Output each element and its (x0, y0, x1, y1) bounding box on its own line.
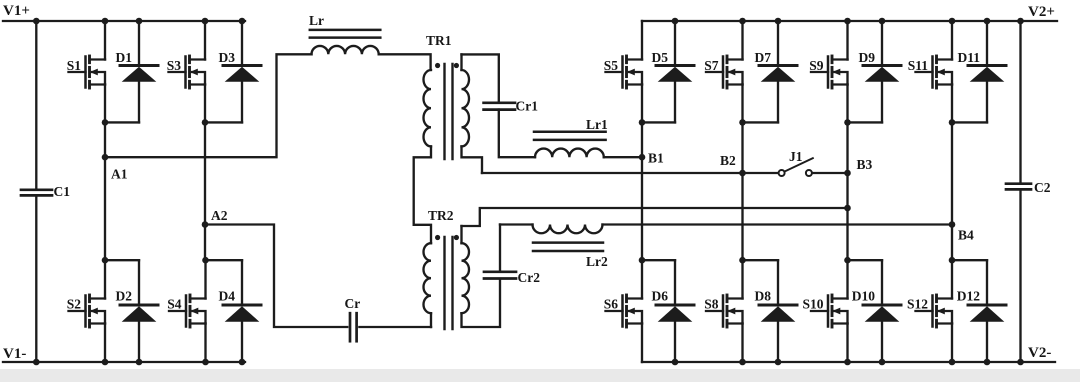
svg-text:B4: B4 (958, 228, 974, 243)
svg-text:B2: B2 (720, 153, 736, 168)
svg-text:S6: S6 (604, 297, 619, 312)
svg-text:V2-: V2- (1028, 345, 1051, 361)
svg-text:S1: S1 (67, 58, 82, 73)
svg-text:S10: S10 (802, 297, 823, 312)
svg-text:Cr1: Cr1 (516, 99, 539, 114)
svg-text:C1: C1 (54, 184, 71, 199)
svg-text:A2: A2 (211, 208, 228, 223)
svg-text:B3: B3 (857, 157, 873, 172)
svg-text:D5: D5 (652, 50, 669, 65)
svg-text:C2: C2 (1034, 180, 1051, 195)
svg-text:B1: B1 (648, 151, 664, 166)
svg-text:S4: S4 (167, 297, 182, 312)
svg-text:V1-: V1- (3, 346, 26, 362)
svg-text:Cr2: Cr2 (518, 270, 541, 285)
svg-text:D6: D6 (652, 289, 669, 304)
svg-text:D1: D1 (116, 50, 133, 65)
svg-text:S11: S11 (908, 58, 929, 73)
svg-text:D10: D10 (852, 289, 875, 304)
svg-text:J1: J1 (789, 149, 803, 164)
svg-text:S5: S5 (604, 58, 619, 73)
svg-text:S2: S2 (67, 297, 82, 312)
svg-text:V1+: V1+ (3, 3, 30, 19)
svg-text:S12: S12 (907, 297, 928, 312)
svg-text:Lr: Lr (309, 13, 324, 28)
svg-text:V2+: V2+ (1028, 4, 1055, 20)
svg-text:S9: S9 (809, 58, 824, 73)
svg-text:Cr: Cr (345, 296, 361, 311)
svg-text:D3: D3 (219, 50, 236, 65)
svg-text:Lr1: Lr1 (586, 117, 608, 132)
svg-text:S8: S8 (704, 297, 719, 312)
svg-text:D9: D9 (859, 50, 876, 65)
svg-text:D11: D11 (957, 50, 980, 65)
svg-text:D8: D8 (755, 289, 772, 304)
svg-text:TR2: TR2 (428, 208, 454, 223)
svg-text:D12: D12 (957, 289, 980, 304)
svg-text:S3: S3 (167, 58, 182, 73)
svg-text:D2: D2 (116, 289, 133, 304)
svg-text:S7: S7 (704, 58, 719, 73)
svg-text:D7: D7 (755, 50, 772, 65)
svg-text:D4: D4 (219, 289, 236, 304)
svg-text:A1: A1 (111, 167, 128, 182)
svg-text:Lr2: Lr2 (586, 254, 608, 269)
svg-text:TR1: TR1 (426, 33, 452, 48)
